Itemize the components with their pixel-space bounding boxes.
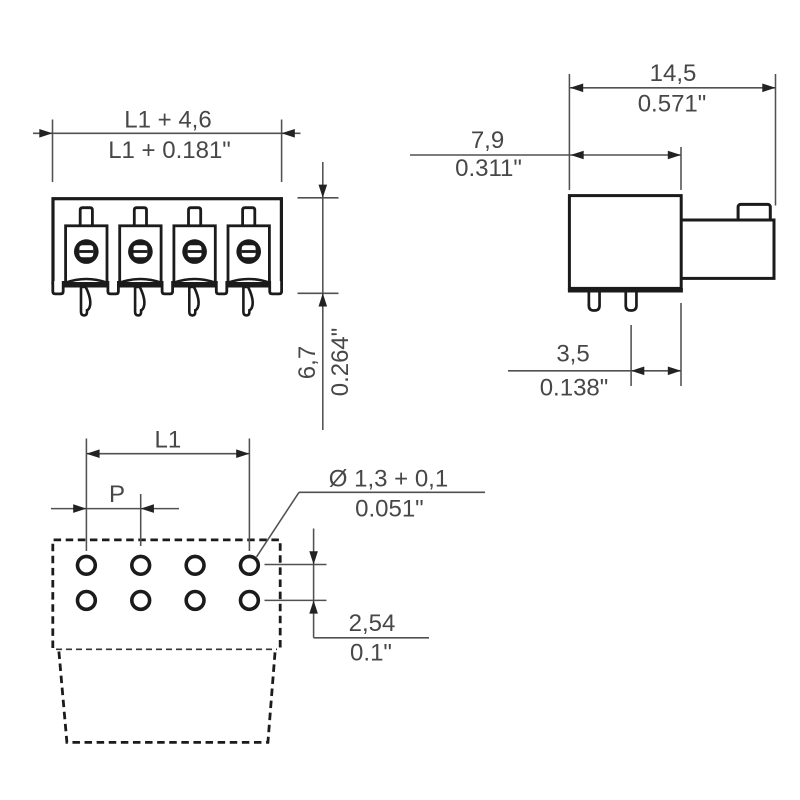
flange tab pole 4 [243,208,255,228]
svg-text:0.311": 0.311" [455,155,522,182]
dim 7,9 extension line mid [680,147,682,190]
dim 6,7 arrow up [319,293,328,306]
hole row1 col1 [78,556,96,574]
flange tab pole 3 [189,208,201,228]
dim 14,5 extension line right [775,74,777,206]
clamp housing pole 1 [66,226,107,283]
hole row2 col1 [78,592,96,610]
side block thick bottom edge [568,288,683,292]
dim L1 arrow right [236,449,249,458]
svg-text:L1 + 0.181": L1 + 0.181" [108,137,231,164]
screw pole 4 [236,239,261,264]
clamp housing pole 2 [120,226,161,283]
base bar pole 2 [118,282,162,288]
hole row1 col2 [132,556,150,574]
dim L1 extension line left [85,439,87,552]
dim 3,5 extension line right [680,303,682,386]
base bar pole 3 [173,282,217,288]
FRONT VIEW GROUP [33,107,354,431]
foot 3 [162,281,173,294]
svg-text:0.1": 0.1" [350,640,392,667]
wire clamp arc pole 4 [228,279,269,283]
dim 2,54 tick row2 [265,599,327,601]
dim L1+4,6 extension line left [52,120,54,183]
dim 2,54 arrow up [309,600,318,613]
dim 14,5 arrow left [570,84,583,93]
dim P line [51,508,179,510]
svg-text:2,54: 2,54 [349,610,396,637]
svg-text:P: P [109,481,125,508]
foot 4 [216,281,227,294]
svg-text:Ø 1,3 + 0,1: Ø 1,3 + 0,1 [329,466,448,493]
svg-text:L1 + 4,6: L1 + 4,6 [124,107,211,134]
svg-text:0.264": 0.264" [327,328,354,397]
hole row2 col2 [132,592,150,610]
footprint dashed wire funnel trapezoid [59,652,275,743]
latch bump on flange [738,204,770,224]
svg-text:7,9: 7,9 [471,127,504,154]
flange tab pole 2 [134,208,146,228]
dim L1 arrow left [86,449,99,458]
dim 6,7 tick top [298,197,339,199]
dim 2,54 tick row1 [265,564,327,566]
clamp housing pole 4 [228,226,269,283]
svg-text:0.138": 0.138" [540,375,609,402]
foot 5 [270,281,282,294]
side flange [680,220,774,278]
hole row1 col4 [241,556,259,574]
wire clamp arc pole 2 [120,279,161,283]
leader underline [299,491,485,493]
svg-text:0.571": 0.571" [638,91,707,118]
dim L1 line [86,453,249,455]
flange tab pole 1 [80,208,92,228]
dim 7,9 arrow left [571,151,584,160]
dim 2,54 elbow line [314,637,429,639]
dim 14,5 extension line left [568,74,570,190]
base bar pole 4 [227,282,271,288]
hole row2 col3 [186,592,204,610]
solder pin pole 2 [135,287,144,315]
dim L1+4,6 arrow left [39,129,52,138]
side pin 2 [626,288,637,311]
solder pin pole 3 [189,287,198,315]
wire clamp arc pole 1 [66,279,107,283]
wire clamp arc pole 3 [174,279,215,283]
dim L1+4,6 line [33,132,301,134]
connector body outline [53,199,281,284]
FOOTPRINT GROUP [51,427,485,743]
SIDE VIEW GROUP [410,60,776,402]
dim P arrow left [73,504,86,513]
foot 1 [53,281,63,294]
dim L1 extension line right [248,439,250,552]
dim 6,7 arrow down [319,185,328,198]
screw pole 1 [74,239,99,264]
dim 6,7 vertical line [322,162,324,430]
dim 7,9 line [410,154,681,156]
hole row1 col3 [186,556,204,574]
side main block [569,196,681,289]
side pin 1 [589,288,600,311]
footprint dashed body outline [53,540,280,648]
screw pole 3 [182,239,207,264]
svg-text:L1: L1 [155,427,182,454]
dim 3,5 arrow right [668,367,681,376]
svg-text:0.051": 0.051" [355,496,424,523]
screw pole 2 [128,239,153,264]
base bar pole 1 [64,282,108,288]
svg-text:14,5: 14,5 [650,60,697,87]
hole row2 col4 [241,592,259,610]
dim P arrow right [141,504,154,513]
leader slant line [257,492,300,557]
dim P extension line [140,494,142,546]
dim 3,5 line [508,370,681,372]
dim 6,7 tick bottom [298,292,339,294]
dim 3,5 extension line left [630,325,632,386]
dim 2,54 arrow down [309,551,318,564]
dim 14,5 arrow right [762,84,775,93]
dim 3,5 arrow left [631,367,644,376]
solder pin pole 1 [81,287,90,315]
dim 2,54 vertical line [313,529,315,638]
svg-text:3,5: 3,5 [556,341,589,368]
dim 14,5 line [569,87,775,89]
dim 7,9 arrow right [668,151,681,160]
dim L1+4,6 extension line right [281,120,283,183]
footprint hidden edge thin dashed [56,648,277,650]
dim L1+4,6 arrow right [282,129,295,138]
svg-text:6,7: 6,7 [294,346,321,379]
foot 2 [108,281,119,294]
solder pin pole 4 [243,287,252,315]
clamp housing pole 3 [174,226,215,283]
